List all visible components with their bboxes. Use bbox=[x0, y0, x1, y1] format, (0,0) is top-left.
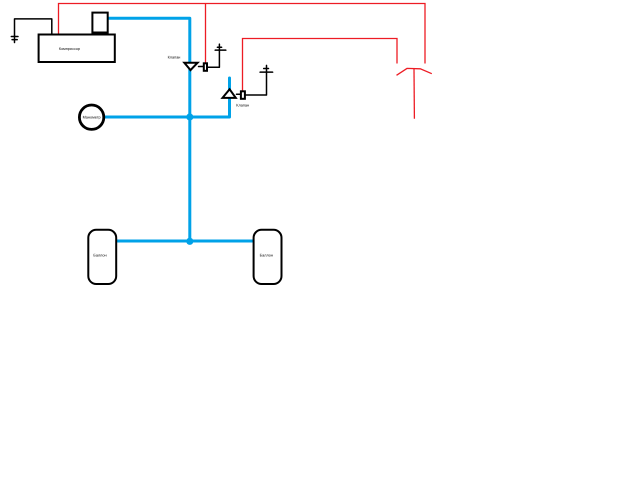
svg-text:Компрессор: Компрессор bbox=[59, 47, 80, 51]
svg-text:Клапан: Клапан bbox=[236, 104, 249, 108]
svg-text:Баллон: Баллон bbox=[260, 253, 273, 257]
svg-text:Клапан: Клапан bbox=[168, 55, 181, 59]
svg-text:Манометр: Манометр bbox=[83, 116, 101, 120]
svg-text:Баллон: Баллон bbox=[93, 253, 106, 257]
